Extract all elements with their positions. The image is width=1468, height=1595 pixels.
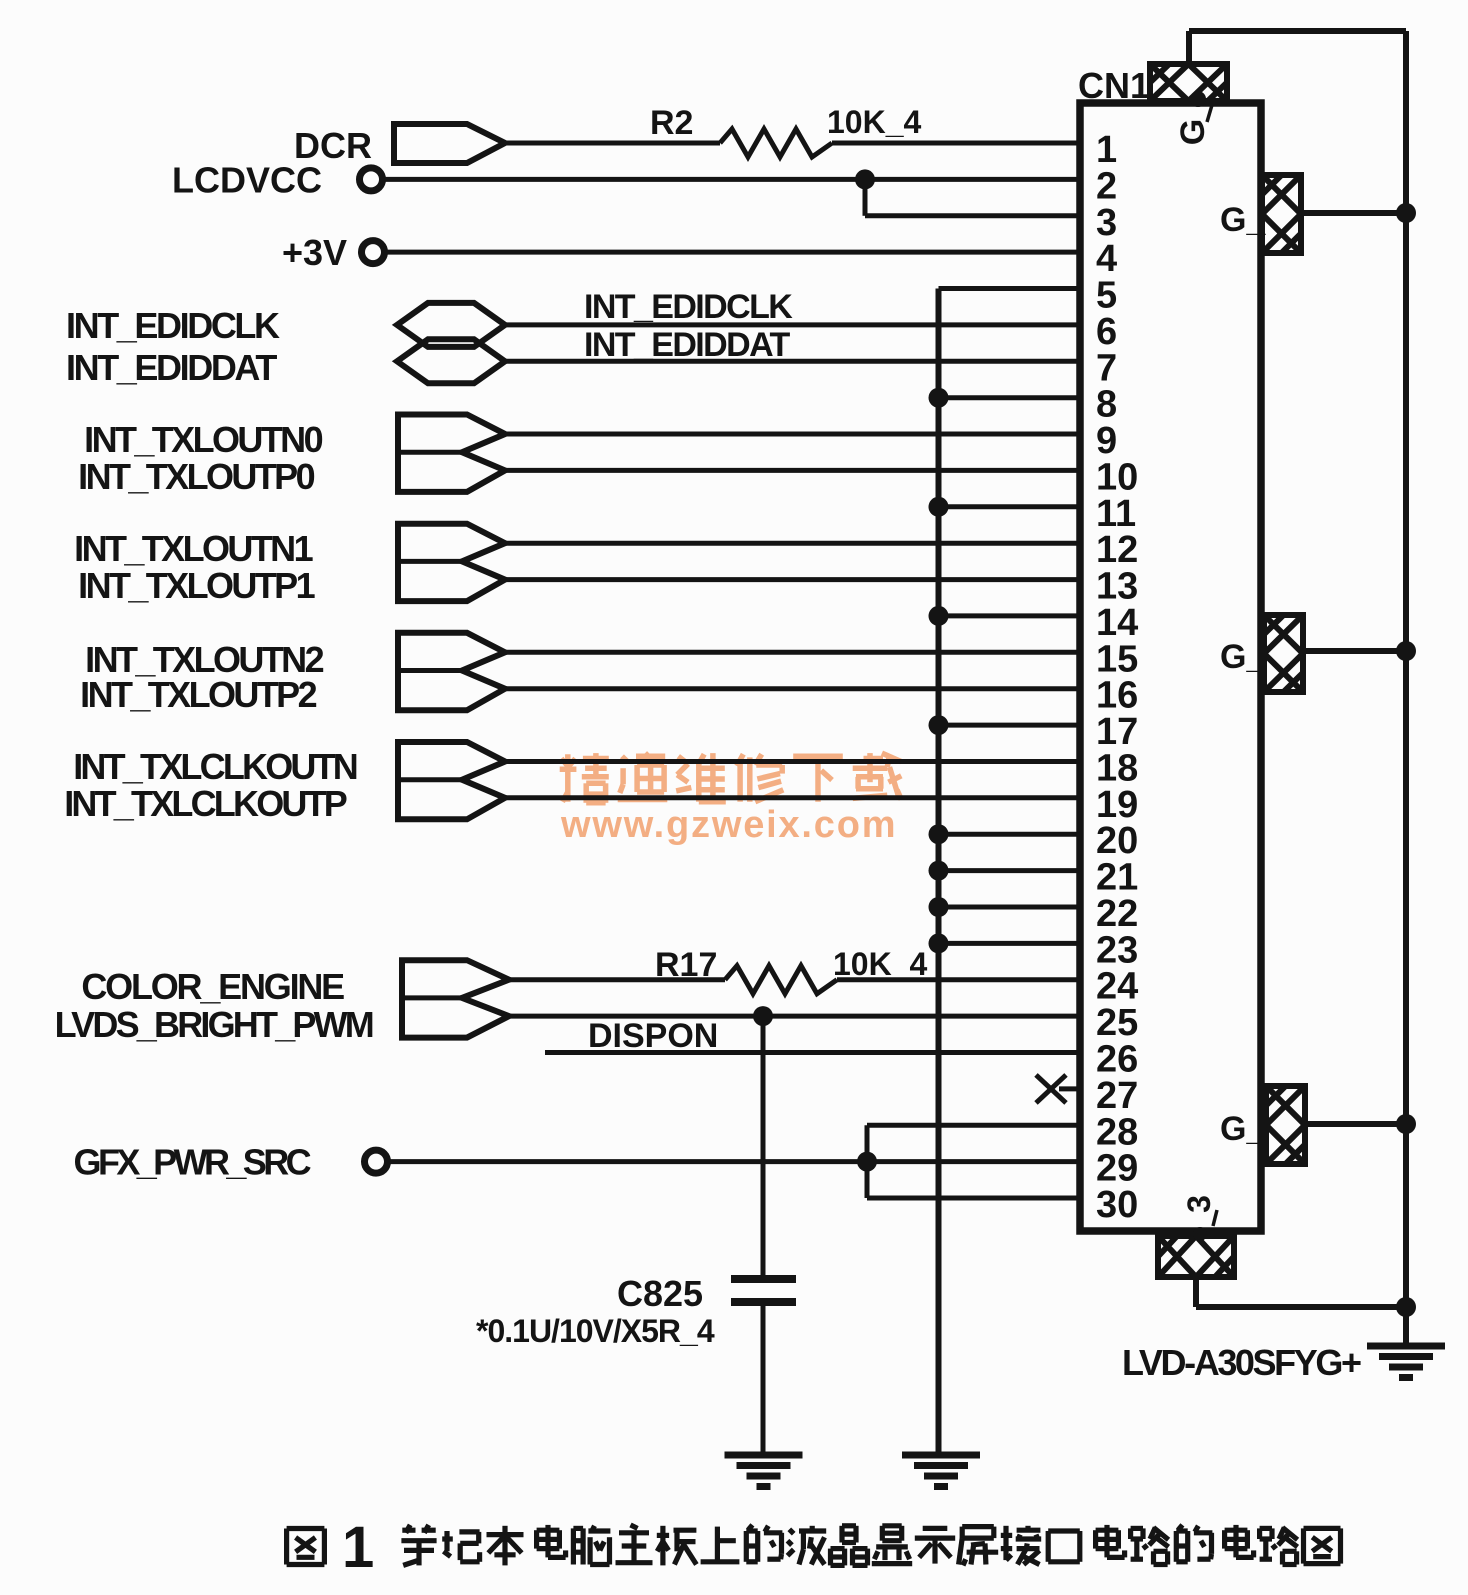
svg-text:COLOR_ENGINE: COLOR_ENGINE [81,966,344,1007]
svg-text:INT_TXLOUTP1: INT_TXLOUTP1 [78,565,315,606]
svg-text:G: G [1174,119,1212,145]
svg-text:INT_TXLOUTP2: INT_TXLOUTP2 [80,674,316,715]
svg-text:CN1: CN1 [1078,65,1150,106]
svg-text:LCDVCC: LCDVCC [172,159,322,200]
svg-text:INT_TXLCLKOUTN: INT_TXLCLKOUTN [73,746,357,787]
svg-text:LVDS_BRIGHT_PWM: LVDS_BRIGHT_PWM [55,1004,373,1045]
svg-text:INT_EDIDCLK: INT_EDIDCLK [66,305,280,346]
svg-text:G_: G_ [1220,1110,1266,1148]
svg-text:INT_TXLOUTN0: INT_TXLOUTN0 [84,419,322,460]
svg-text:INT_TXLOUTN1: INT_TXLOUTN1 [74,528,313,569]
svg-text:GFX_PWR_SRC: GFX_PWR_SRC [74,1142,312,1183]
svg-text:INT_TXLCLKOUTP: INT_TXLCLKOUTP [64,783,347,824]
svg-text:G_: G_ [1220,638,1266,676]
svg-text:www.gzweix.com: www.gzweix.com [560,804,897,846]
svg-text:+3V: +3V [282,232,347,273]
svg-text:LVD-A30SFYG+: LVD-A30SFYG+ [1122,1342,1361,1383]
svg-text:G_: G_ [1220,201,1266,239]
svg-text:10K_4: 10K_4 [833,946,928,982]
svg-text:INT_EDIDDAT: INT_EDIDDAT [66,347,277,388]
svg-text:3: 3 [1181,1195,1217,1213]
svg-text:R2: R2 [650,104,693,142]
svg-text:30: 30 [1096,1184,1138,1226]
svg-text:1: 1 [342,1515,374,1580]
svg-text:R17: R17 [655,946,717,984]
svg-text:INT_TXLOUTP0: INT_TXLOUTP0 [78,456,314,497]
svg-text:DISPON: DISPON [588,1017,718,1055]
svg-text:10K_4: 10K_4 [827,104,922,140]
svg-text:INT_EDIDCLK: INT_EDIDCLK [584,288,793,326]
svg-text:*0.1U/10V/X5R_4: *0.1U/10V/X5R_4 [476,1313,715,1349]
svg-text:INT_EDIDDAT: INT_EDIDDAT [584,326,790,364]
svg-text:C825: C825 [617,1273,703,1314]
